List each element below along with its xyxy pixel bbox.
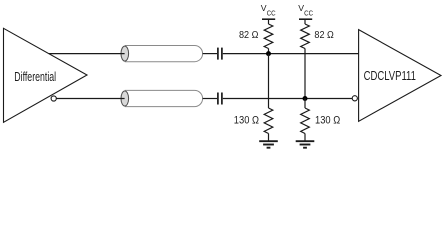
- receiver U2 CDCLVP111: [359, 30, 441, 122]
- resistor R1 82 ohm (left pull-up): [264, 19, 273, 54]
- transmission line TL2 (bottom coax): [121, 90, 203, 106]
- capacitor C1: [218, 48, 222, 60]
- ground symbol (right): [296, 141, 315, 148]
- svg-text:CC: CC: [304, 8, 313, 17]
- node: junction of R2/R4 on bottom line: [303, 96, 308, 101]
- node: junction of R1/R3 on top line: [266, 51, 271, 56]
- Vcc supply symbol (right): [298, 3, 313, 19]
- wire C2 to U2 in-: [223, 98, 352, 100]
- svg-text:82 Ω: 82 Ω: [239, 30, 259, 41]
- svg-text:Differential: Differential: [14, 69, 56, 84]
- capacitor C2: [218, 93, 222, 105]
- svg-text:CC: CC: [267, 8, 276, 17]
- svg-text:130 Ω: 130 Ω: [234, 114, 259, 126]
- wire node to R3 (crosses bottom line, no connection): [268, 54, 270, 108]
- transmission line TL1 (top coax): [121, 46, 203, 62]
- differential driver U1: [4, 28, 88, 122]
- wire node to R4: [304, 99, 306, 109]
- wire TL1 to C1: [203, 53, 217, 55]
- Vcc supply symbol (left): [261, 3, 276, 19]
- ground symbol (left): [259, 141, 278, 148]
- svg-text:130 Ω: 130 Ω: [315, 114, 340, 126]
- svg-text:CDCLVP111: CDCLVP111: [364, 68, 416, 83]
- U2 inverting input bubble: [352, 96, 357, 101]
- resistor R3 130 ohm (left pull-down): [264, 108, 273, 141]
- wire C1 to U2 in+: [223, 53, 359, 55]
- wire U1 out+ to TL1: [49, 53, 125, 55]
- resistor R2 82 ohm (right pull-up): [301, 19, 310, 54]
- resistor R4 130 ohm (right pull-down): [301, 108, 310, 141]
- svg-text:82 Ω: 82 Ω: [314, 30, 334, 41]
- wire TL2 to C2: [203, 98, 217, 100]
- wire U1 out- to TL2: [56, 98, 124, 100]
- U1 inverting output bubble: [51, 96, 56, 101]
- wire R2 to bottom line (crosses top line, no connection): [304, 54, 306, 99]
